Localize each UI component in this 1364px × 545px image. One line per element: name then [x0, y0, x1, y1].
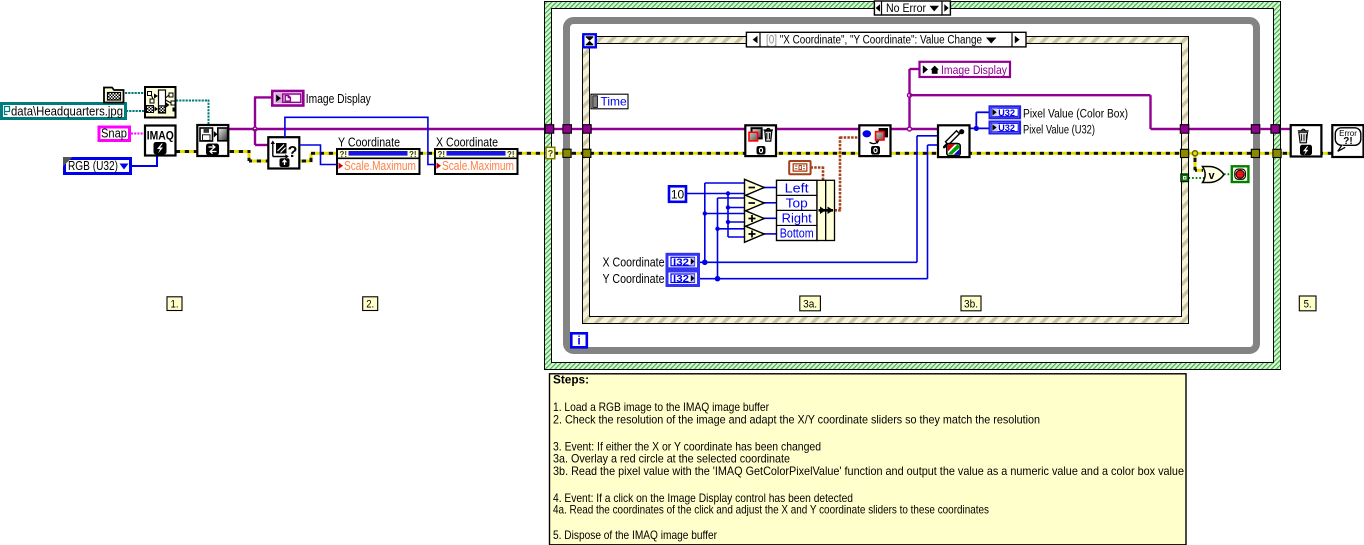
- label 5.: [1299, 296, 1316, 311]
- add node 1: [745, 210, 765, 227]
- numeric constant 10: [669, 186, 686, 202]
- svg-text:RGB (U32): RGB (U32): [68, 158, 118, 173]
- path constant data\Headquarters.jpg: [2, 104, 126, 119]
- junction: purple at (255,129): [253, 127, 257, 131]
- wire: error event to loop to case right: [1189, 152, 1253, 155]
- IMAQ read-file node (save to image): [197, 125, 228, 156]
- while loop border: [567, 21, 1257, 351]
- wire: Y Coordinate terminal to nodes: [698, 278, 928, 280]
- wire: magenta string Snap to IMAQ Create: [131, 133, 145, 135]
- property node X Coordinate: [435, 149, 518, 174]
- wire: X up to GetColorPixelValue: [916, 136, 918, 262]
- wire: purple trunk inside event structure: [591, 128, 939, 130]
- event structure border: [583, 37, 1189, 324]
- wire: purple branch down to GetImageSize: [254, 129, 256, 145]
- tunnel purple event right: [1180, 125, 1189, 134]
- junction: error ring: [1192, 151, 1197, 156]
- svg-text:v: v: [1208, 170, 1215, 182]
- terminal X Coordinate: [667, 254, 699, 268]
- svg-text:Top: Top: [786, 196, 808, 210]
- event selector label: [746, 32, 1026, 47]
- svg-text:X Coordinate: X Coordinate: [436, 135, 498, 149]
- enum constant RGB (U32): [65, 159, 131, 174]
- IMAQ GetColorPixelValue node (eyedropper): [938, 125, 970, 157]
- svg-text:5. Dispose of the IMAQ image b: 5. Dispose of the IMAQ image buffer: [553, 528, 717, 542]
- label 1.: [167, 297, 182, 311]
- svg-text:3b. Read the pixel value with: 3b. Read the pixel value with the 'IMAQ …: [553, 464, 1184, 478]
- wire: purple branch up to Image Display ref: [254, 97, 256, 129]
- junction: purple ring on trunk: [908, 127, 912, 131]
- svg-text:1.: 1.: [171, 298, 179, 310]
- tunnel error event left: [583, 149, 591, 157]
- svg-text:10: 10: [671, 187, 685, 201]
- svg-text:?!: ?!: [438, 150, 446, 159]
- IMAQ GetImageSize node: [268, 137, 299, 168]
- control reference Image Display (canvas): [272, 91, 303, 106]
- loop condition stop terminal: [1232, 166, 1249, 182]
- simple error handler node: [1332, 125, 1363, 157]
- boolean tunnel event right: [1181, 174, 1189, 182]
- wire: error case to dispose to error dialog: [1322, 152, 1333, 155]
- wire: blue GetImageSize to X property node: [285, 117, 436, 164]
- svg-text:Left: Left: [785, 181, 810, 195]
- steps comment box: [550, 374, 1187, 545]
- svg-text:Scale.Maximum: Scale.Maximum: [344, 159, 416, 173]
- svg-text:?!: ?!: [340, 150, 348, 159]
- folder icon constant: [104, 88, 124, 103]
- IMAQ overlay oval node: [859, 125, 890, 156]
- while loop iteration terminal i: [571, 333, 587, 347]
- svg-text:Image Display: Image Display: [941, 63, 1008, 77]
- subtract node 2: [745, 195, 765, 212]
- Build Path node: [145, 87, 176, 118]
- svg-text:[0] "X Coordinate", "Y Coordin: [0] "X Coordinate", "Y Coordinate": Valu…: [766, 35, 982, 47]
- tunnel error case right: [1273, 149, 1281, 157]
- wire: error between borders left: [555, 152, 564, 155]
- svg-text:Snap: Snap: [101, 127, 127, 141]
- label 3b.: [961, 296, 981, 311]
- svg-text:2. Check the resolution of the: 2. Check the resolution of the image and…: [553, 412, 1040, 426]
- svg-text:IMAQ: IMAQ: [147, 131, 174, 143]
- Or node: [1203, 167, 1224, 183]
- wire: purple image trunk left: [229, 128, 547, 130]
- svg-text:2.: 2.: [366, 298, 374, 310]
- svg-text:I32: I32: [673, 274, 689, 285]
- svg-text:?!: ?!: [1343, 136, 1352, 147]
- wire: error jog down to GetImageSize: [248, 150, 251, 161]
- wire: triangle outputs to bundle: [764, 187, 777, 189]
- indicator Pixel Value (U32): [990, 122, 1020, 134]
- svg-text:?!: ?!: [507, 150, 515, 159]
- string constant Snap: [99, 127, 130, 141]
- svg-text:Y Coordinate: Y Coordinate: [603, 272, 665, 286]
- tunnel purple event left: [583, 125, 592, 134]
- svg-text:?: ?: [548, 148, 554, 158]
- tunnel purple loop right: [1251, 125, 1260, 134]
- tunnel purple loop left: [563, 125, 572, 134]
- wire: purple to Image Display property ref (up): [908, 69, 910, 129]
- control reference Image Display (event): [920, 62, 1011, 77]
- svg-text:Image Display: Image Display: [306, 92, 372, 106]
- wire: brown rect constant to bundle: [811, 166, 824, 169]
- indicator Pixel Value (Color Box): [990, 106, 1020, 118]
- svg-text:I32: I32: [673, 258, 689, 269]
- svg-text:data\Headquarters.jpg: data\Headquarters.jpg: [11, 104, 123, 119]
- wire: Y up to GetColorPixelValue: [927, 145, 929, 279]
- svg-text:Pixel Value (Color Box): Pixel Value (Color Box): [1023, 107, 1128, 121]
- svg-text:Y Coordinate: Y Coordinate: [338, 135, 400, 149]
- wire: error branch to Or gate: [1194, 155, 1197, 171]
- tunnel error loop left: [563, 149, 571, 157]
- event data node Time: [591, 94, 628, 109]
- svg-text:Steps:: Steps:: [553, 373, 589, 387]
- event timeout terminal: [583, 34, 596, 47]
- wire: teal path Build Path to read-file node: [176, 100, 209, 102]
- svg-text:Pixel Value (U32): Pixel Value (U32): [1023, 122, 1095, 136]
- tunnel error event right: [1181, 149, 1189, 157]
- case structure 'No Error' border: [545, 2, 1281, 370]
- property node Y Coordinate: [337, 149, 420, 174]
- wire: constant 10 to subtract/add nodes: [686, 193, 745, 195]
- tunnel purple case right: [1271, 125, 1280, 134]
- svg-text:5.: 5.: [1304, 299, 1312, 311]
- terminal Y Coordinate: [667, 271, 699, 286]
- rectangle cluster constant: [789, 161, 810, 174]
- IMAQ clear overlay node: [745, 125, 776, 156]
- wire: teal path folder to Build Path: [125, 92, 145, 94]
- tunnel error loop right: [1251, 149, 1259, 157]
- svg-text:4a. Read the coordinates of th: 4a. Read the coordinates of the click an…: [553, 503, 989, 517]
- wire: GetColorPixelValue outputs to U32 indicators: [970, 127, 990, 129]
- add node 2: [745, 226, 765, 243]
- svg-text:i: i: [577, 334, 580, 348]
- svg-text:No Error: No Error: [886, 1, 926, 15]
- wire: X Coordinate terminal to nodes: [698, 261, 917, 263]
- svg-text:Bottom: Bottom: [780, 226, 814, 240]
- wire: blue RGB(U32) to IMAQ Create: [132, 165, 158, 167]
- svg-text:U32: U32: [998, 108, 1015, 119]
- bundle-by-name node Left/Top/Right/Bottom: [777, 180, 818, 240]
- tunnel purple case left: [545, 125, 554, 134]
- wire: blue GetImageSize to Y property node: [299, 145, 337, 165]
- wire: purple between case and loop borders: [554, 128, 564, 130]
- IMAQ dispose node: [1291, 125, 1322, 156]
- svg-text:U32: U32: [998, 123, 1015, 134]
- svg-text:3a.: 3a.: [803, 299, 817, 311]
- junction: purple ring upper: [908, 93, 912, 97]
- wire: green boolean tunnel to Or gate: [1189, 177, 1205, 179]
- case selector label No Error: [874, 1, 950, 15]
- svg-text:?!: ?!: [409, 150, 417, 159]
- svg-text:?: ?: [288, 144, 298, 161]
- wire: green Or gate to loop condition: [1224, 173, 1232, 175]
- svg-text:Right: Right: [782, 211, 813, 225]
- wire: error cluster IMAQ Create to save node: [176, 150, 249, 153]
- svg-text:Scale.Maximum: Scale.Maximum: [442, 159, 514, 173]
- wire: purple event to loop to case right side: [1189, 128, 1252, 130]
- wire: brown cluster bundle to overlay oval: [835, 209, 842, 212]
- wire: error trunk inside event: [591, 152, 1182, 155]
- wire: purple output route top: [910, 94, 1151, 96]
- wire: error to property nodes and case selector: [311, 152, 547, 155]
- svg-text:Time: Time: [601, 95, 628, 109]
- svg-text:X Coordinate: X Coordinate: [603, 256, 665, 270]
- svg-text:3b.: 3b.: [964, 299, 978, 311]
- wire: teal path constant to Build Path: [126, 110, 145, 112]
- case selector terminal ?: [546, 147, 555, 158]
- label 3a.: [800, 296, 821, 311]
- IMAQ Create node: [145, 126, 176, 156]
- subtract node 1: [745, 179, 765, 196]
- label 2.: [363, 297, 378, 311]
